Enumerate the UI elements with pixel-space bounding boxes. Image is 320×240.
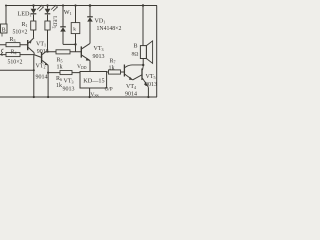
svg-text:1k: 1k: [57, 65, 63, 71]
potentiometer W1: [71, 4, 80, 51]
resistor R2: [45, 21, 50, 30]
svg-text:1N4148×2: 1N4148×2: [97, 26, 122, 32]
svg-text:B: B: [2, 28, 6, 34]
svg-text:R6: R6: [56, 76, 62, 82]
svg-text:VT4: VT4: [126, 84, 136, 90]
wire VT4 emitter to VT5 base: [133, 75, 142, 80]
resistor R1: [31, 21, 36, 30]
resistor R7: [109, 70, 121, 74]
microphone B: [1, 24, 8, 34]
svg-text:R7: R7: [110, 59, 116, 65]
svg-text:VT5: VT5: [146, 74, 156, 80]
svg-text:R3: R3: [10, 37, 16, 43]
node VT2 emitter ground: [47, 96, 49, 98]
node: left edge squiggle (cut-off label): [1, 49, 3, 56]
svg-text:VD1: VD1: [95, 18, 106, 24]
resistor R5: [56, 50, 70, 54]
wire bottom ground rail: [0, 96, 157, 98]
node VT2 emitter / R6 junction: [47, 72, 49, 74]
wire VSS pin to ground: [89, 88, 91, 97]
svg-text:9013: 9013: [145, 82, 157, 88]
wire top supply rail: [6, 5, 157, 7]
svg-text:1k: 1k: [109, 66, 115, 72]
node top rail junctions: [5, 5, 7, 7]
svg-text:510×2: 510×2: [8, 60, 23, 66]
transistor VT2 9014: [42, 50, 49, 65]
wire R6 run: [48, 72, 80, 74]
svg-text:9013: 9013: [63, 87, 75, 93]
wire R1 to VT1 emitter: [33, 30, 35, 38]
LED2: [45, 4, 58, 21]
svg-text:W1: W1: [64, 9, 72, 16]
LED1: [31, 4, 44, 21]
svg-text:1k: 1k: [56, 83, 62, 89]
svg-text:VT3: VT3: [94, 46, 104, 52]
svg-text:9013: 9013: [93, 54, 105, 60]
diode VD1b on sense branch: [60, 4, 66, 44]
svg-text:R5: R5: [57, 58, 63, 64]
node junction at W1: [74, 43, 76, 45]
node collector junction under speaker: [142, 64, 144, 66]
wire right border: [156, 6, 158, 98]
svg-text:VT2: VT2: [36, 64, 46, 70]
speaker B 8ohm: [140, 4, 152, 65]
node VT5 emitter ground junction: [147, 96, 149, 98]
transistor VT1 9015: [28, 38, 35, 53]
wire VT5 emitter to ground: [147, 87, 149, 97]
svg-text:VT1: VT1: [36, 42, 46, 48]
wire input to R4: [0, 55, 41, 58]
svg-text:VSS: VSS: [90, 92, 98, 98]
resistor R4: [6, 53, 20, 57]
wire VT2 emitter to ground: [47, 65, 49, 97]
transistor VT4 9014: [124, 65, 143, 81]
wire stub under microphone B: [1, 33, 3, 37]
wire left drop to microphone B: [5, 6, 7, 25]
svg-text:510×2: 510×2: [13, 29, 28, 35]
node VT2 collector / R5: [47, 50, 49, 52]
wire VT3 emitter to KD-15 VDD pin: [89, 61, 91, 72]
svg-text:LED1: LED1: [18, 11, 32, 18]
svg-text:9014: 9014: [125, 91, 137, 97]
wire left input at y70: [0, 69, 34, 71]
resistor R6: [60, 71, 72, 75]
svg-text:KD—15: KD—15: [83, 78, 104, 85]
wire R2 down to VT2 collector: [47, 30, 49, 50]
transistor VT3 9013: [81, 43, 90, 60]
diode VD1: [87, 4, 93, 43]
IC KD-15 music chip: [80, 72, 107, 89]
transistor VT5 9013: [142, 65, 148, 87]
svg-text:LED2: LED2: [51, 16, 57, 28]
svg-text:R1: R1: [22, 22, 28, 28]
svg-text:R4: R4: [11, 50, 17, 56]
wire O/P to R7: [107, 71, 125, 73]
svg-text:O/P: O/P: [105, 87, 113, 93]
svg-text:B: B: [134, 44, 138, 50]
wire input to R3: [0, 44, 27, 46]
node collector-ground junction: [33, 96, 35, 98]
wire R5 run: [48, 51, 82, 53]
node VSS ground junction: [89, 96, 91, 98]
svg-text:9014: 9014: [36, 75, 48, 81]
resistor R3: [6, 43, 20, 47]
svg-text:VDD: VDD: [77, 64, 87, 70]
wire diode branch to W1 branch: [63, 43, 76, 45]
wire VT1 collector down to ground: [33, 53, 35, 97]
svg-text:k: k: [73, 27, 76, 33]
node junction y70: [33, 69, 35, 71]
svg-text:8Ω: 8Ω: [132, 52, 139, 58]
svg-text:VT3: VT3: [64, 79, 74, 85]
